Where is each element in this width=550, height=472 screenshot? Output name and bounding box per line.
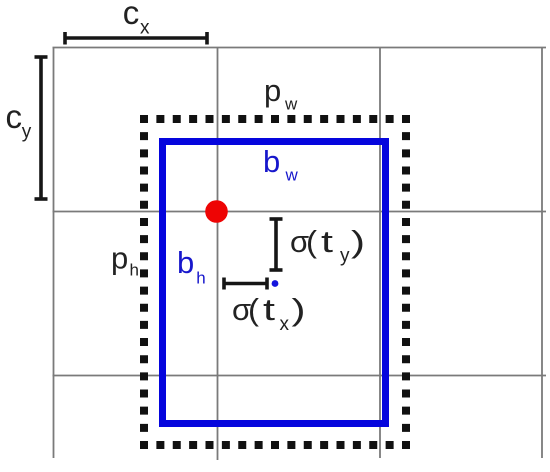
c_x measurement bracket [65, 32, 207, 45]
svg-text:b: b [263, 144, 280, 179]
red dot: grid cell offset point [205, 200, 228, 223]
svg-text:p: p [111, 241, 128, 276]
grid horizontal line 2 [53, 211, 547, 213]
svg-text:c: c [123, 0, 140, 31]
c_y measurement bracket [35, 57, 48, 199]
prior (anchor) box: dotted rectangle [140, 115, 410, 449]
svg-text:x: x [140, 18, 150, 39]
grid vertical line 2 [217, 48, 219, 461]
svg-text:(: ( [306, 224, 318, 259]
blue dot: predicted box centre [272, 280, 279, 287]
svg-text:t: t [321, 224, 334, 259]
svg-text:w: w [285, 166, 299, 185]
svg-text:): ) [292, 292, 306, 327]
predicted box: blue rectangle [163, 142, 386, 424]
svg-text:p: p [264, 73, 281, 108]
grid vertical line 3 [379, 48, 381, 459]
svg-text:c: c [6, 98, 23, 135]
svg-text:(: ( [248, 292, 260, 327]
grid horizontal line 1 [53, 47, 547, 49]
grid vertical line 4 [541, 48, 543, 459]
svg-text:): ) [351, 224, 365, 259]
svg-text:b: b [177, 245, 194, 280]
svg-text:y: y [340, 246, 350, 267]
svg-text:x: x [280, 314, 290, 335]
svg-text:t: t [263, 292, 276, 327]
svg-text:y: y [22, 122, 32, 143]
sigma(t_y) measurement bracket [270, 219, 283, 270]
svg-text:h: h [196, 269, 205, 288]
grid vertical line 1 [53, 48, 55, 459]
grid horizontal line 3 [53, 375, 547, 377]
svg-text:w: w [284, 95, 298, 114]
sigma(t_x) measurement bracket [224, 278, 267, 290]
svg-text:h: h [130, 261, 139, 280]
